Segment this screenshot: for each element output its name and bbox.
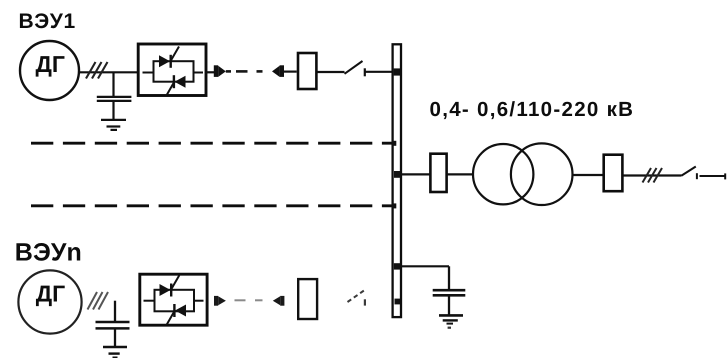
thyristor VS2 (bottom, left-facing) [166,75,186,96]
busbar (sectioned bus) [393,44,401,317]
breaker Q3 (rectangle) [604,155,623,192]
thyristor VS4 (bottom, left-facing) [167,304,187,325]
svg-text:0,4- 0,6/110-220 кВ: 0,4- 0,6/110-220 кВ [430,98,635,121]
disconnect switch Sn (faded) [348,291,365,306]
svg-text:ВЭУ1: ВЭУ1 [19,10,76,33]
breaker Qn (rectangle) [298,279,317,319]
thyristor converter box Un [140,274,207,325]
capacitor bank CB [433,266,466,314]
grid end tick [724,173,726,179]
thyristor VS1 (top, right-facing) [159,47,179,68]
wire U1 to arrow [207,71,215,73]
ground (capacitor bank) [439,315,463,328]
capacitor C1 (shunt compensation) [97,72,132,119]
arrow right (control link out) [214,65,226,77]
wire T1 to breaker Q3 [573,174,603,176]
node: bus junction (row 1) [394,68,400,75]
transformer T1 (two windings) [473,144,533,204]
arrow left (control link in, bottom) [273,296,285,306]
disconnect switch S2 (HV line) [682,167,697,180]
node: bus junction (row n) [395,299,401,305]
three-phase hatch mark (HV line) [643,168,663,183]
dashed control link (top row) [226,70,263,73]
generator G1 (circle) [20,41,79,100]
breaker Q1 (rectangle) [298,53,316,89]
U1 inner loop [143,61,204,81]
node: bus junction (dash 2) [392,203,397,208]
arrow left (control link in) [272,65,284,77]
node: bus junction (capacitor bank) [394,263,400,269]
svg-text:ДГ: ДГ [36,281,65,307]
three-phase hatch mark (bottom row) [88,292,109,310]
arrow right (control link out, bottom) [214,296,226,306]
wire to grid [700,175,725,177]
wire Q2 to transformer T1 [447,173,472,175]
wire G1 to box U1 [79,71,138,73]
wire Q3 to line [624,174,682,176]
thyristor converter box U1 [138,44,206,96]
thyristor VS3 (top, right-facing) [160,275,180,296]
dashed control link (bottom row, faded) [235,299,263,301]
wire switch to bus [365,71,393,73]
disconnect switch S1 [345,61,365,76]
svg-text:ДГ: ДГ [36,51,65,77]
node: bus junction (dash 1) [392,141,397,146]
dashed separator line 2 (more units) [31,204,392,207]
ground (C1) [101,120,126,130]
wire bus to breaker Q2 [401,173,430,175]
node: bus junction (transformer feeder) [394,171,400,178]
wire Q1 to switch [318,71,345,73]
generator Gn (circle) [18,270,81,333]
capacitor Cn (shunt compensation) [96,301,130,346]
dashed separator line 1 (more units) [31,142,392,145]
wire bus to capacitor bank [401,265,450,267]
wire arrow to breaker Q1 [284,70,297,72]
Un inner loop [144,290,204,312]
ground (Cn) [103,347,127,357]
breaker Q2 (rectangle) [430,154,446,192]
three-phase hatch mark (top row) [86,62,108,79]
svg-text:ВЭУn: ВЭУn [15,238,82,266]
